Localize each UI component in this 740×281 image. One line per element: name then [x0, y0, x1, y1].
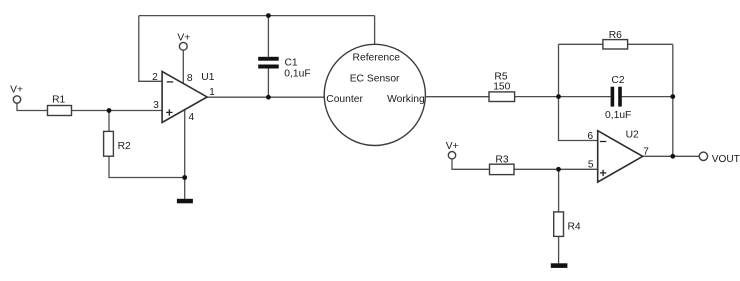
- svg-text:6: 6: [587, 131, 593, 142]
- terminal V+ input: [13, 96, 20, 103]
- svg-text:150: 150: [493, 82, 510, 93]
- svg-text:4: 4: [189, 112, 195, 123]
- svg-text:Counter: Counter: [326, 94, 363, 105]
- svg-text:0,1uF: 0,1uF: [605, 110, 631, 121]
- svg-text:3: 3: [153, 100, 159, 111]
- EC sensor circle: [324, 44, 425, 145]
- resistor R4: [554, 212, 564, 237]
- svg-text:1: 1: [209, 87, 215, 98]
- wire V+ input stub to R1: [17, 103, 48, 110]
- junction node B C2 right: [670, 94, 675, 99]
- ground R4: [551, 263, 568, 268]
- op-amp U1: [162, 71, 207, 122]
- capacitor C1: [258, 57, 279, 69]
- wire R5 to node A: [515, 96, 559, 98]
- svg-text:R4: R4: [568, 221, 581, 232]
- U2 plus sign: [600, 170, 606, 176]
- svg-text:V+: V+: [10, 84, 23, 95]
- svg-text:C2: C2: [611, 75, 624, 86]
- svg-text:U2: U2: [626, 130, 639, 141]
- terminal V+ U1 supply: [179, 42, 187, 50]
- wire R2 bottom to ground node: [109, 156, 185, 177]
- junction node A R5/feedback: [556, 94, 561, 99]
- svg-text:0,1uF: 0,1uF: [284, 69, 310, 80]
- wire ground node to ground symbol: [184, 178, 186, 199]
- terminal VOUT: [699, 152, 707, 160]
- wire C1 bottom lead: [267, 69, 269, 98]
- wire feedback up from node A: [558, 44, 560, 96]
- U2 minus sign: [600, 141, 606, 143]
- wire node A down to U2 pin6: [559, 97, 598, 141]
- wire node to R2 top: [108, 111, 110, 132]
- svg-text:Working: Working: [387, 94, 425, 105]
- junction node U1 out/C1 bottom: [266, 95, 271, 100]
- op-amp U2: [598, 131, 643, 182]
- svg-text:EC Sensor: EC Sensor: [350, 73, 400, 84]
- junction node D output/feedback: [670, 154, 675, 159]
- wire feedback top run: [139, 15, 375, 17]
- svg-text:R6: R6: [609, 30, 622, 41]
- wire C2 right to node B: [622, 96, 673, 98]
- svg-text:2: 2: [152, 72, 158, 83]
- wire U2 output to VOUT: [642, 155, 699, 157]
- svg-text:U1: U1: [201, 72, 214, 83]
- junction node C R3/R4/pin5: [556, 167, 561, 172]
- svg-text:VOUT: VOUT: [712, 154, 740, 165]
- resistor R6: [603, 40, 628, 49]
- wire C1 top lead: [267, 16, 269, 57]
- wire sensor Working to R5: [425, 96, 489, 98]
- wire feedback right vertical: [672, 44, 674, 156]
- wire U1 pin4 to ground node: [184, 109, 186, 177]
- resistor R2: [104, 131, 114, 156]
- wire U1 pin2 feedback left: [139, 16, 162, 82]
- U1 minus sign: [167, 81, 173, 83]
- ground U1: [177, 199, 193, 204]
- wire R4 bottom to ground: [558, 236, 560, 263]
- svg-text:5: 5: [588, 159, 594, 170]
- svg-text:7: 7: [643, 147, 649, 158]
- wire drop to sensor Reference: [374, 16, 376, 45]
- svg-text:R1: R1: [52, 95, 65, 106]
- wire R1 to U1 pin3: [72, 110, 163, 112]
- svg-text:R3: R3: [495, 155, 508, 166]
- svg-text:V+: V+: [177, 32, 190, 43]
- svg-text:V+: V+: [446, 141, 459, 152]
- svg-text:R2: R2: [118, 141, 131, 152]
- svg-text:C1: C1: [285, 57, 298, 68]
- wire R3 to U2 pin5: [514, 168, 598, 170]
- wire V+ stub to R3: [452, 159, 490, 169]
- resistor R1: [48, 106, 72, 116]
- svg-text:Reference: Reference: [353, 53, 401, 64]
- junction node feedback/C1 top: [266, 13, 271, 18]
- junction node R1/R2: [107, 108, 112, 113]
- capacitor C2: [611, 87, 622, 107]
- junction node pin4/R2/ground: [182, 175, 187, 180]
- U1 plus sign: [166, 109, 172, 115]
- resistor R5: [489, 92, 515, 102]
- wire U1 V+ supply stub pin8: [182, 50, 184, 84]
- svg-text:8: 8: [187, 73, 193, 84]
- terminal V+ R3: [448, 152, 455, 159]
- resistor R3: [490, 164, 515, 174]
- wire feedback top run R6: [559, 43, 673, 45]
- wire U1 output to sensor Counter: [207, 96, 325, 98]
- wire node C to R4 top: [558, 169, 560, 212]
- wire node A to C2 left: [559, 96, 611, 98]
